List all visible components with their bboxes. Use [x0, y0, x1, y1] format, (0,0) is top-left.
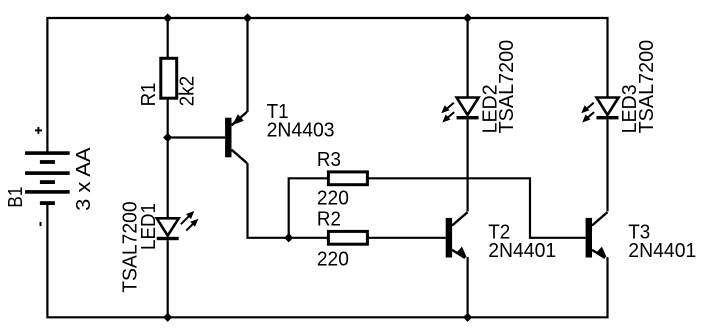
svg-text:2N4401: 2N4401 [488, 240, 556, 262]
wire LED1 cathode to bottom rail [167, 240, 169, 317]
resistor R1 [161, 58, 177, 98]
wire T1 base [168, 136, 225, 138]
label R3 [317, 149, 341, 171]
wire T1 collector to node [248, 163, 289, 238]
label LED3 [619, 84, 641, 133]
battery - terminal mark [40, 222, 42, 226]
resistor R3 [328, 172, 367, 185]
svg-text:R1: R1 [138, 82, 160, 106]
wire node up to R3 [289, 178, 328, 238]
junction bottom rail / T2 emitter [463, 313, 472, 322]
wire ground rail from battery - along bottom to T3 emitter [47, 203, 607, 318]
label TSAL7200 at LED1 [120, 201, 142, 293]
LED2 TSAL7200 [441, 98, 478, 123]
label 3 x AA [73, 147, 95, 211]
svg-text:TSAL7200: TSAL7200 [636, 40, 658, 134]
wire T3 collector to LED3 cathode [606, 119, 608, 211]
wire R3 to T3 base [368, 178, 586, 238]
junction node T1/R2/R3 [284, 233, 293, 242]
junction top rail / LED2 anode [463, 13, 472, 22]
label R2 [317, 209, 341, 231]
svg-text:220: 220 [317, 248, 349, 270]
label TSAL7200 at LED2 [496, 40, 518, 134]
transistor T3 2N4401 NPN [586, 212, 608, 258]
svg-text:2N4403: 2N4403 [267, 120, 335, 142]
label R1 [138, 82, 160, 106]
junction top rail / R1 [163, 13, 172, 22]
junction bottom rail / LED1 [163, 313, 172, 322]
label T2 [488, 221, 510, 243]
svg-text:R3: R3 [317, 149, 341, 171]
wire T2 collector to LED2 cathode [467, 119, 469, 211]
label 2N4401 of T3 [628, 240, 696, 262]
label LED2 [479, 84, 501, 133]
transistor T2 2N4401 NPN [446, 212, 468, 258]
label 2k2 [176, 76, 198, 107]
wire positive supply rail from battery + over top to LED3 anode [47, 18, 607, 153]
svg-text:2N4401: 2N4401 [628, 240, 696, 262]
svg-text:2k2: 2k2 [176, 76, 198, 107]
battery B1 3xAA cells [25, 151, 70, 205]
wire node to R2 [289, 237, 328, 239]
svg-text:3 x AA: 3 x AA [73, 147, 95, 211]
battery + terminal mark [35, 127, 42, 134]
wire T1 emitter to top rail [246, 18, 248, 112]
LED3 TSAL7200 [581, 98, 618, 123]
label LED1 [138, 203, 160, 250]
wire R2 to T2 base [368, 237, 446, 239]
wire R1 to LED1 [167, 99, 169, 219]
label B1 [5, 187, 27, 208]
wire top rail to LED2 [467, 18, 469, 98]
svg-text:TSAL7200: TSAL7200 [496, 40, 518, 134]
label 2N4401 of T2 [488, 240, 556, 262]
resistor R2 [328, 231, 367, 244]
wire top rail to R1 [167, 18, 169, 58]
label 220 of R3 [317, 187, 349, 209]
svg-text:220: 220 [317, 187, 349, 209]
wire T2 emitter to bottom rail [467, 257, 469, 317]
junction top rail / T1 emitter [243, 13, 252, 22]
svg-text:LED1: LED1 [138, 203, 160, 250]
label 220 of R2 [317, 248, 349, 270]
label TSAL7200 at LED3 [636, 40, 658, 134]
svg-text:R2: R2 [317, 209, 341, 231]
transistor T1 2N4403 PNP [225, 112, 247, 163]
junction R1 / T1 base node [163, 133, 172, 142]
label T1 [267, 101, 289, 123]
svg-text:B1: B1 [5, 187, 27, 208]
LED1 TSAL7200 [157, 211, 199, 240]
label 2N4403 [267, 120, 335, 142]
label T3 [628, 221, 650, 243]
